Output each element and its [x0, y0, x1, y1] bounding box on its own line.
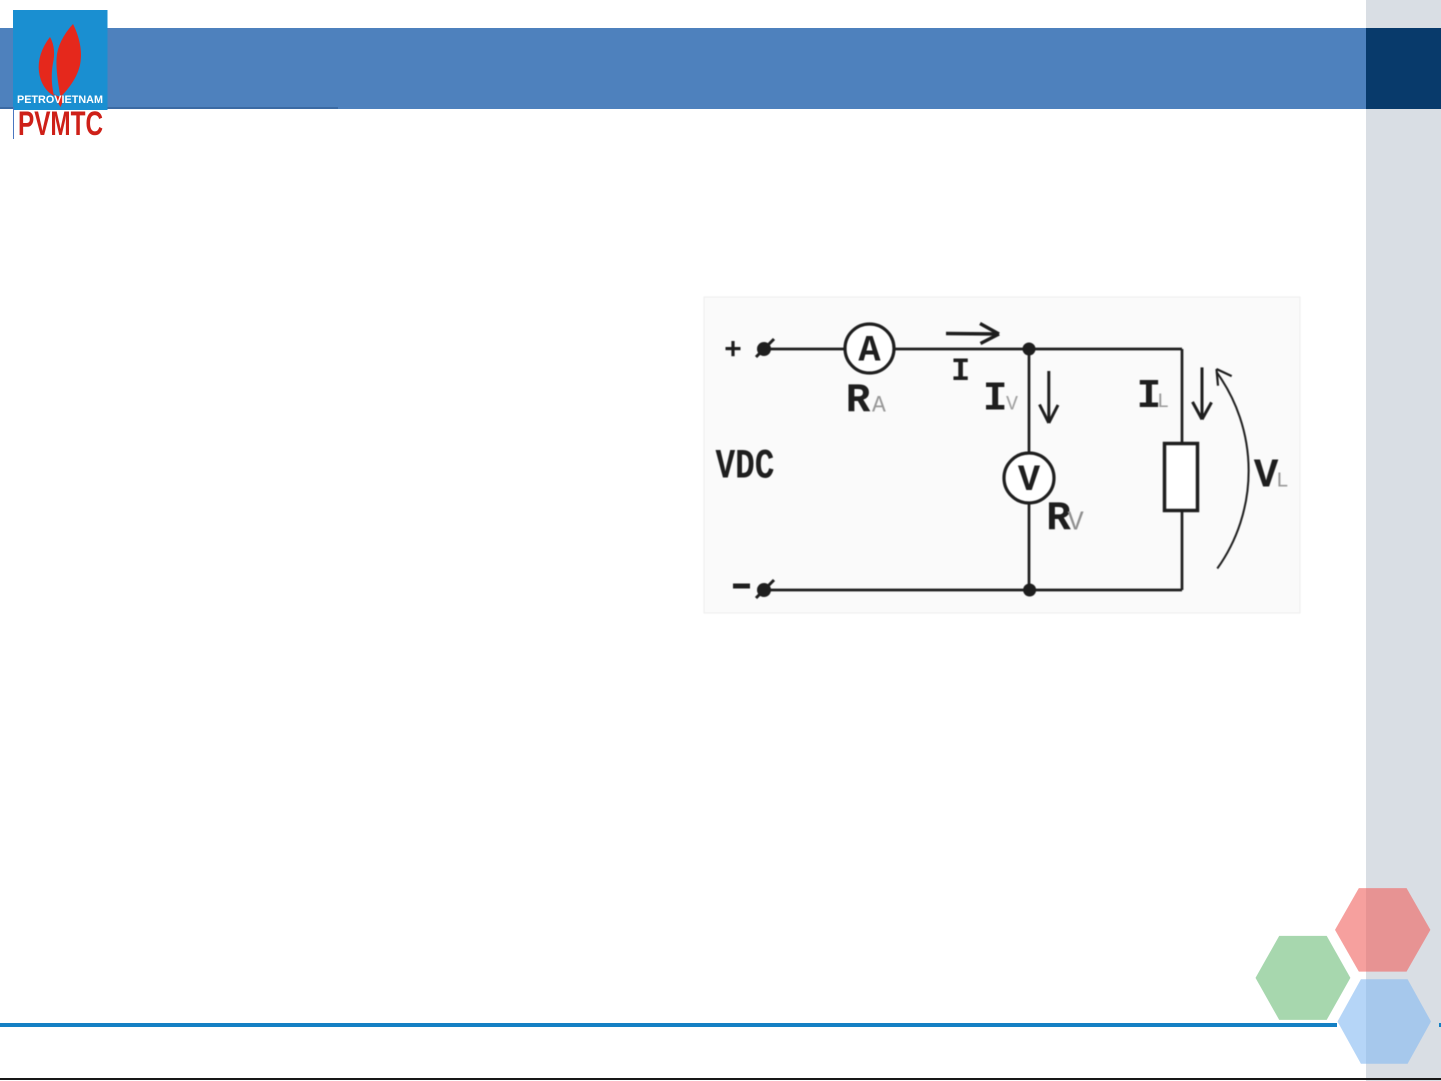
- svg-text:I: I: [983, 376, 1008, 422]
- svg-text:V: V: [1068, 509, 1085, 539]
- svg-text:L: L: [1157, 391, 1169, 414]
- svg-text:PETROVIETNAM: PETROVIETNAM: [17, 94, 103, 106]
- svg-text:V: V: [1006, 393, 1018, 416]
- svg-text:I: I: [951, 353, 970, 390]
- svg-text:L: L: [1276, 471, 1289, 494]
- svg-text:A: A: [858, 331, 881, 373]
- svg-text:R: R: [846, 379, 871, 425]
- svg-text:VDC: VDC: [716, 444, 775, 491]
- svg-text:A: A: [872, 393, 886, 419]
- svg-text:V: V: [1018, 460, 1041, 502]
